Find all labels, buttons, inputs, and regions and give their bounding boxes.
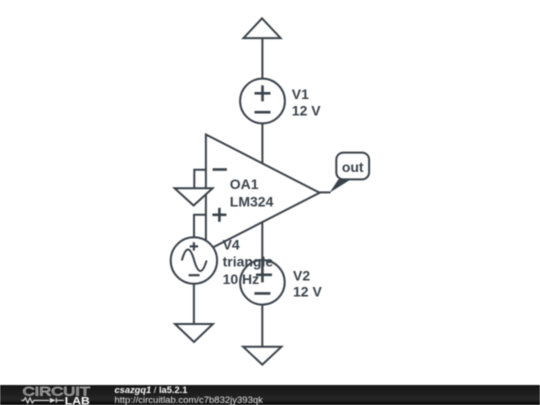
svg-text:out: out — [342, 159, 364, 175]
svg-text:LAB: LAB — [65, 395, 90, 405]
svg-text:V4: V4 — [223, 236, 240, 252]
svg-text:V1: V1 — [292, 86, 309, 102]
svg-text:V2: V2 — [293, 267, 310, 283]
op-amp inverting input mark — [213, 168, 227, 171]
wire op-amp output — [318, 191, 331, 193]
wire V4 to ground — [193, 284, 195, 324]
wire inverting input to ground — [194, 170, 206, 189]
V4 plus minus marks — [189, 242, 200, 275]
wire V1 to op-amp V+ pin — [261, 123, 263, 163]
op-amp non-inverting input mark — [212, 208, 226, 222]
node out flag tail — [330, 179, 352, 193]
ground below V4 — [175, 324, 213, 342]
credits line — [115, 386, 263, 405]
voltage source V2 — [240, 260, 285, 305]
wire VDD to V1 — [261, 38, 263, 79]
source V4 (triangle wave) — [171, 237, 217, 283]
footer bar — [0, 385, 540, 405]
V4 sine glyph — [182, 250, 207, 272]
svg-text:LM324: LM324 — [230, 193, 274, 209]
CircuitLab logo — [0, 385, 110, 405]
power supply VDD arrow — [244, 18, 281, 38]
ground below V2 — [243, 347, 281, 365]
wire non-inverting input to V4 — [194, 215, 206, 238]
svg-text:12 V: 12 V — [293, 284, 322, 300]
svg-text:OA1: OA1 — [230, 176, 259, 192]
wire op-amp V- pin to V2 — [261, 223, 263, 260]
op-amp U1 OA1 triangle — [206, 135, 320, 252]
node out flag box — [336, 153, 369, 180]
svg-text:10 Hz: 10 Hz — [223, 271, 260, 287]
wire V2 to ground — [261, 305, 263, 347]
svg-text:triangle: triangle — [223, 254, 274, 270]
voltage source V1 — [240, 79, 285, 124]
ground at inverting input — [175, 188, 213, 205]
svg-text:12 V: 12 V — [292, 102, 321, 118]
